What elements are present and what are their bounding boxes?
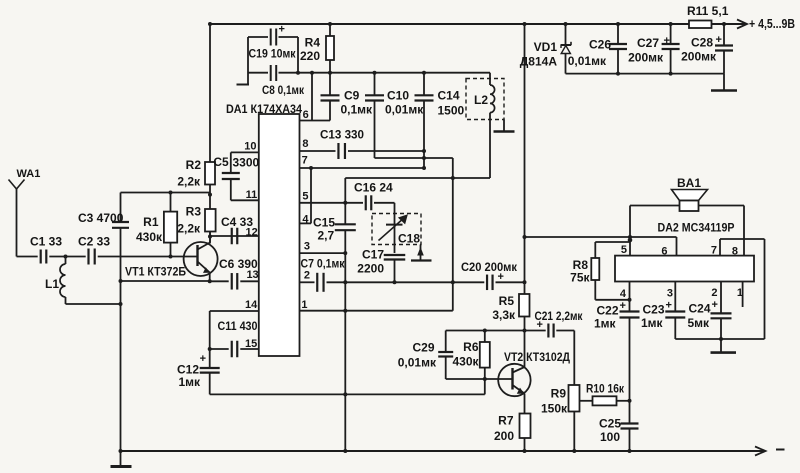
svg-text:10: 10	[244, 141, 256, 153]
svg-text:+: +	[200, 353, 206, 365]
svg-text:+: +	[712, 299, 718, 311]
svg-text:R5: R5	[499, 294, 515, 308]
svg-text:C9: C9	[344, 89, 360, 103]
svg-text:C15: C15	[313, 216, 335, 230]
svg-text:14: 14	[245, 299, 258, 311]
svg-text:6: 6	[303, 109, 309, 121]
svg-text:C11 430: C11 430	[218, 319, 258, 333]
svg-text:+: +	[716, 34, 722, 46]
svg-text:0,1мк: 0,1мк	[341, 103, 374, 117]
svg-text:220: 220	[300, 49, 320, 63]
svg-text:8: 8	[302, 138, 308, 150]
svg-text:+: +	[498, 271, 504, 283]
svg-text:C2 33: C2 33	[78, 235, 110, 249]
svg-text:7: 7	[302, 155, 308, 167]
svg-text:12: 12	[246, 227, 258, 239]
svg-text:DA2 MC34119P: DA2 MC34119P	[658, 221, 735, 235]
svg-text:2200: 2200	[357, 262, 384, 276]
svg-text:15: 15	[245, 338, 257, 350]
svg-text:C10: C10	[387, 89, 409, 103]
svg-text:R10 16к: R10 16к	[586, 382, 625, 396]
svg-text:VT1 КТ372Б: VT1 КТ372Б	[125, 265, 186, 279]
svg-text:5: 5	[302, 191, 308, 203]
svg-text:2,2к: 2,2к	[177, 175, 201, 189]
svg-text:R9: R9	[551, 387, 567, 401]
svg-text:R6: R6	[463, 340, 479, 354]
svg-text:R3: R3	[186, 205, 202, 219]
svg-text:C27: C27	[637, 36, 659, 50]
svg-text:1: 1	[737, 287, 743, 299]
svg-text:5: 5	[621, 244, 627, 256]
svg-text:1: 1	[301, 299, 307, 311]
svg-text:C3 4700: C3 4700	[78, 211, 124, 225]
svg-text:0,01мк: 0,01мк	[568, 54, 607, 68]
svg-text:8: 8	[732, 246, 738, 258]
svg-text:430к: 430к	[136, 230, 163, 244]
svg-text:C22: C22	[596, 304, 618, 318]
svg-text:5мк: 5мк	[687, 316, 710, 330]
svg-text:+: +	[666, 300, 672, 312]
svg-text:430к: 430к	[452, 355, 479, 369]
svg-text:7: 7	[711, 245, 717, 257]
svg-text:0,01мк: 0,01мк	[398, 356, 437, 370]
svg-text:C8 0,1мк: C8 0,1мк	[262, 83, 305, 97]
svg-text:1500: 1500	[438, 104, 465, 118]
svg-text:3300: 3300	[233, 156, 260, 170]
svg-text:3,3к: 3,3к	[492, 308, 516, 322]
svg-text:C19 10мк: C19 10мк	[249, 47, 297, 61]
svg-text:+: +	[664, 35, 670, 47]
svg-text:C18: C18	[398, 232, 420, 246]
svg-text:200мк: 200мк	[681, 50, 717, 64]
svg-text:C28: C28	[691, 36, 713, 50]
svg-text:150к: 150к	[541, 402, 568, 416]
svg-text:R4: R4	[305, 36, 321, 50]
svg-text:C5: C5	[213, 155, 229, 169]
svg-text:+ 4,5...9В: + 4,5...9В	[749, 16, 795, 31]
svg-text:+: +	[537, 319, 543, 331]
svg-text:C1 33: C1 33	[30, 235, 62, 249]
svg-text:0,01мк: 0,01мк	[385, 103, 424, 117]
svg-text:200: 200	[494, 429, 514, 443]
svg-text:1мк: 1мк	[594, 317, 617, 331]
svg-text:C29: C29	[412, 341, 434, 355]
svg-text:3: 3	[667, 288, 673, 300]
svg-text:BA1: BA1	[677, 176, 701, 190]
svg-text:6: 6	[661, 246, 667, 258]
svg-text:L2: L2	[474, 93, 488, 107]
svg-text:2,7: 2,7	[318, 229, 335, 243]
svg-text:C14: C14	[438, 89, 460, 103]
svg-text:4: 4	[302, 214, 309, 226]
svg-text:DA1 К174ХА34: DA1 К174ХА34	[226, 102, 302, 116]
svg-text:75к: 75к	[570, 271, 590, 285]
svg-text:C17: C17	[362, 248, 384, 262]
svg-text:C16 24: C16 24	[354, 181, 393, 195]
svg-text:2,2к: 2,2к	[177, 222, 201, 236]
svg-text:200мк: 200мк	[628, 51, 664, 65]
svg-text:R7: R7	[498, 414, 514, 428]
svg-text:C25: C25	[599, 417, 621, 431]
svg-text:C20 200мк: C20 200мк	[461, 260, 518, 274]
svg-text:C13 330: C13 330	[320, 128, 364, 142]
svg-text:100: 100	[600, 430, 620, 444]
svg-text:2: 2	[711, 287, 717, 299]
svg-text:C26: C26	[589, 38, 611, 52]
svg-text:+: +	[620, 300, 626, 312]
svg-text:1мк: 1мк	[641, 316, 664, 330]
svg-text:C23: C23	[642, 303, 664, 317]
svg-text:WA1: WA1	[17, 168, 41, 180]
svg-text:+: +	[279, 24, 285, 36]
svg-text:VT2 КТ3102Д: VT2 КТ3102Д	[504, 350, 570, 364]
svg-text:Д814А: Д814А	[520, 55, 558, 69]
svg-text:13: 13	[246, 269, 258, 281]
svg-text:2: 2	[304, 270, 310, 282]
svg-text:R1: R1	[143, 215, 159, 229]
svg-text:4: 4	[620, 288, 627, 300]
svg-text:11: 11	[246, 189, 258, 201]
svg-text:1мк: 1мк	[178, 375, 201, 389]
svg-text:L1: L1	[45, 277, 59, 291]
svg-text:C7 0,1мк: C7 0,1мк	[301, 257, 346, 271]
svg-text:R11 5,1: R11 5,1	[687, 4, 729, 18]
svg-text:VD1: VD1	[534, 40, 558, 54]
svg-text:R2: R2	[186, 158, 202, 172]
svg-text:3: 3	[304, 241, 310, 253]
svg-text:C24: C24	[688, 302, 710, 316]
